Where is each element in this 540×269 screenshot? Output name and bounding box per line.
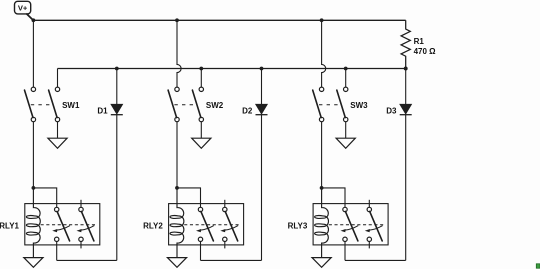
switch SW1 [25, 87, 80, 122]
switch SW2 [168, 87, 224, 122]
svg-text:RLY1: RLY1 [0, 222, 20, 231]
relay RLY1 contact 2 [77, 200, 95, 249]
green mark [536, 264, 540, 268]
power flag V+ [15, 1, 31, 14]
wire SW3 pole B to ground [345, 122, 347, 139]
wire RLY3 contact 1 to D3 cathode [345, 259, 406, 261]
wire node to RLY3 contact 1 [322, 188, 345, 207]
svg-text:V+: V+ [18, 4, 28, 13]
svg-text:470 Ω: 470 Ω [414, 47, 437, 56]
relay RLY2 case [143, 204, 244, 245]
svg-text:SW1: SW1 [62, 101, 80, 110]
relay RLY1 contact 1 [52, 207, 70, 260]
ground (SW1) [48, 138, 67, 148]
svg-text:D3: D3 [386, 106, 397, 115]
wire V+ bus to SW1 pole A [32, 20, 34, 87]
wire top bus to SW2 pole A (hops bus2) [177, 20, 181, 87]
relay RLY2 contact 1 [196, 207, 214, 260]
relay RLY3 contact 1 [341, 207, 359, 260]
wire RLY1 contact 1 to D1 cathode [57, 259, 117, 261]
svg-text:SW2: SW2 [206, 101, 224, 110]
wire second bus [58, 68, 406, 70]
ground (RLY2 coil) [167, 258, 186, 268]
junction node top bus col2 [175, 18, 179, 22]
relay RLY3 case [288, 204, 389, 245]
svg-text:D2: D2 [242, 106, 253, 115]
V+ lead wire [26, 14, 33, 21]
junction node RLY3 coil/contact [320, 186, 324, 190]
wire SW3 pole A to RLY3 coil node [321, 122, 323, 188]
relay RLY1 coil [26, 188, 40, 258]
junction node RLY2 coil/contact [175, 186, 179, 190]
ground (RLY3 coil) [312, 258, 331, 268]
ground (RLY1 coil) [24, 258, 43, 268]
wire bus2 to SW2 pole B [200, 69, 202, 88]
wire node to RLY1 contact 1 [33, 188, 56, 207]
wire RLY2 contact 1 to D2 cathode [201, 259, 262, 261]
relay RLY1 actuation dashes [41, 224, 97, 226]
svg-text:RLY3: RLY3 [288, 222, 308, 231]
ground (SW2) [192, 138, 211, 148]
junction node RLY1 coil/contact [32, 186, 36, 190]
relay RLY3 actuation dashes [329, 224, 385, 226]
relay RLY3 contact 2 [365, 200, 383, 249]
junction node top bus col3 [320, 18, 324, 22]
relay RLY2 contact 2 [220, 200, 238, 249]
ground (SW3) [336, 138, 355, 148]
wire bus2 to SW3 pole B [345, 69, 347, 88]
wire SW2 pole B to ground [200, 122, 202, 139]
relay RLY2 actuation dashes [184, 224, 240, 226]
wire node to RLY2 contact 1 [177, 188, 201, 207]
junction node bus2 D1 [115, 67, 119, 71]
diode D1 [97, 69, 122, 261]
wire top supply bus [33, 19, 405, 21]
junction node R1 / bus2 [404, 67, 408, 71]
wire bus2 to SW1 pole B [57, 69, 59, 88]
diode D2 [242, 69, 267, 261]
junction node bus2 D2 [260, 67, 264, 71]
wire top bus to SW3 pole A (hops bus2) [322, 20, 326, 87]
junction node bus2 SW3 pole B [344, 67, 348, 71]
relay RLY3 coil [315, 188, 329, 258]
svg-text:D1: D1 [97, 106, 108, 115]
wire SW1 pole A to RLY1 coil node [32, 122, 34, 188]
diode D3 [386, 69, 411, 261]
svg-text:RLY2: RLY2 [143, 222, 163, 231]
junction node V+ bus [32, 18, 36, 22]
wire SW1 pole B to ground [57, 122, 59, 139]
svg-text:R1: R1 [414, 37, 425, 46]
wire SW2 pole A to RLY2 coil node [176, 122, 178, 188]
relay RLY2 coil [170, 188, 184, 258]
junction node bus2 D3 [404, 67, 408, 71]
switch SW3 [313, 87, 368, 122]
svg-text:SW3: SW3 [350, 101, 368, 110]
relay RLY1 case [0, 204, 100, 245]
resistor R1 [401, 20, 436, 68]
junction node bus2 SW2 pole B [199, 67, 203, 71]
